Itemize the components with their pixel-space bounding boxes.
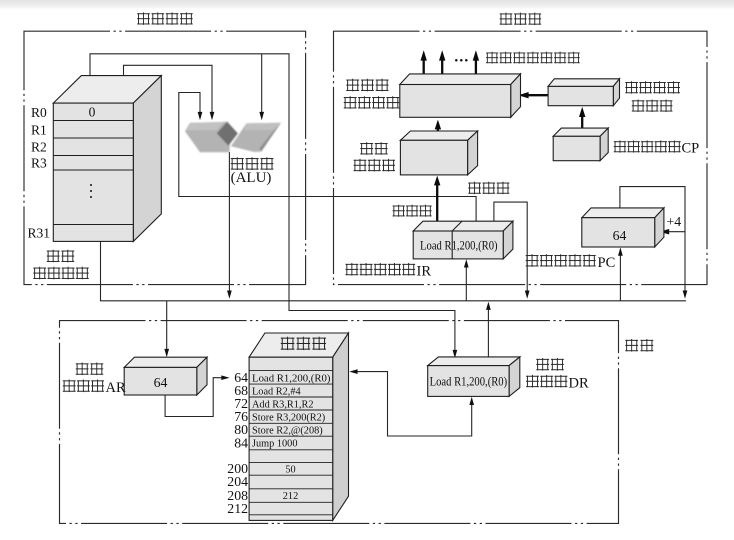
svg-text:0: 0 xyxy=(89,105,96,120)
wire: IR operand -> ALU left input xyxy=(179,93,476,227)
wire: reg-file top out B -> ALU middle input xyxy=(124,65,213,113)
bold arrow: decoder -> micro-op unit xyxy=(437,129,439,134)
instruction decoder xyxy=(400,131,477,140)
svg-text:Store R2,@(208): Store R2,@(208) xyxy=(252,425,323,436)
timing signal generator xyxy=(548,79,619,87)
svg-text:Load R1,200,(R0): Load R1,200,(R0) xyxy=(252,373,331,384)
svg-text:Load R1,200,(R0): Load R1,200,(R0) xyxy=(430,375,508,389)
label: shizhong maichongqi CP xyxy=(614,140,626,152)
wire: DR output -> bus xyxy=(487,309,489,358)
data register DR xyxy=(428,357,520,366)
svg-text:AR: AR xyxy=(106,380,126,396)
svg-text:64: 64 xyxy=(613,228,627,243)
label: shixu xinhao chanshengqi xyxy=(625,81,638,93)
svg-text:Store R3,200(R2): Store R3,200(R2) xyxy=(252,412,325,423)
svg-text:IR: IR xyxy=(417,264,432,280)
wire: main bus + reg-file bottom connection xyxy=(101,241,687,300)
wire: bus -> PC input xyxy=(619,254,621,300)
micro-operation control unit U1 xyxy=(400,74,521,85)
wire: memory <-> DR data link xyxy=(356,372,472,436)
label: caozuoma (opcode) xyxy=(393,205,405,217)
address register AR xyxy=(124,357,207,367)
top gray band xyxy=(0,0,734,10)
bold arrows: micro-op control signals out xyxy=(423,61,425,78)
register file (general register set) xyxy=(53,76,161,104)
wire: AR output -> memory address xyxy=(165,378,222,417)
bold arrow: timing generator -> micro-op unit xyxy=(529,94,549,96)
wire: bus -> AR input xyxy=(166,301,168,350)
label: shuju jicunqi DR xyxy=(536,358,549,371)
wire: +4 increment into PC xyxy=(667,231,685,233)
svg-text:R0: R0 xyxy=(31,105,47,120)
dashed box: memory section xyxy=(60,321,619,524)
program counter PC xyxy=(582,208,664,218)
svg-text:R3: R3 xyxy=(31,155,47,170)
label: tongyong jicunqizu xyxy=(47,250,60,263)
svg-text:CP: CP xyxy=(682,141,700,157)
label: caozuoshu (operand) xyxy=(468,182,481,194)
label: chengxu jishuqi PC xyxy=(526,254,539,267)
label: micro-op control signals xyxy=(486,52,498,64)
op-amp style ALU shape xyxy=(185,122,281,153)
label: zhiling jicunqi IR xyxy=(345,263,358,276)
svg-text:+4: +4 xyxy=(667,214,682,229)
bold arrow: clock CP -> timing generator xyxy=(581,117,583,129)
wire: ALU output -> bus xyxy=(228,152,230,291)
dashed box: controller section xyxy=(334,31,708,284)
svg-text:R2: R2 xyxy=(31,140,47,155)
svg-text:212: 212 xyxy=(227,501,248,516)
svg-text:50: 50 xyxy=(285,464,295,475)
clock pulse box CP xyxy=(553,128,608,136)
wire: bus -> IR input xyxy=(465,266,467,301)
svg-text:Jump 1000: Jump 1000 xyxy=(252,439,297,450)
svg-text:212: 212 xyxy=(283,491,298,502)
title: yunsuan bujian (arithmetic unit) xyxy=(137,12,150,24)
svg-text:R31: R31 xyxy=(28,226,51,241)
dots between signal arrows xyxy=(455,59,458,62)
instruction register IR xyxy=(413,221,513,231)
label: dizhi jicunqi AR xyxy=(76,363,89,376)
wire: IR operand/address -> main bus xyxy=(494,202,527,291)
label: cunchuti on top face xyxy=(281,337,295,350)
label: yunsuanqi (ALU) xyxy=(231,157,244,170)
svg-text:DR: DR xyxy=(569,376,589,392)
dashed box: arithmetic unit section xyxy=(24,31,306,284)
svg-text:Load R1,200,(R0): Load R1,200,(R0) xyxy=(420,238,498,252)
svg-text:Add R3,R1,R2: Add R3,R1,R2 xyxy=(252,399,314,410)
vertical ellipsis xyxy=(90,184,92,186)
svg-text:PC: PC xyxy=(598,255,616,271)
wire: reg-file top out A -> ALU right input + down to DR (via lower bus) xyxy=(90,54,455,352)
IR divider xyxy=(451,231,453,259)
label: zhiling yimaqi xyxy=(360,142,373,155)
wire: PC loop via +4 back to bus xyxy=(620,187,685,292)
svg-text:(ALU): (ALU) xyxy=(231,170,272,186)
svg-text:84: 84 xyxy=(234,435,248,450)
svg-text:Load R2,#4: Load R2,#4 xyxy=(252,386,301,397)
label: neicun (memory) xyxy=(625,339,638,352)
bold arrow: IR opcode -> decoder xyxy=(436,185,438,222)
main memory body (cun chu ti) xyxy=(249,333,348,357)
title: kongzhiqi (controller) xyxy=(500,13,513,25)
label: weicaozuo kongzhibujian xyxy=(346,79,359,92)
svg-text:R1: R1 xyxy=(31,122,47,137)
svg-text:64: 64 xyxy=(154,375,168,390)
